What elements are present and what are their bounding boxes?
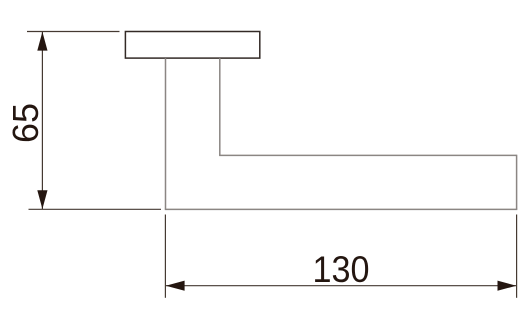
handle lever bottom edge (wire) bbox=[165, 208, 518, 210]
arrowhead up (65 dimension) bbox=[37, 32, 47, 51]
extension line left (130 dimension) bbox=[164, 215, 166, 298]
extension line top (65 dimension) bbox=[27, 31, 120, 33]
dimension line 130 (horizontal) bbox=[166, 285, 517, 287]
handle left outer edge (wire) bbox=[165, 58, 167, 209]
extension line bottom (65 dimension) bbox=[29, 208, 162, 210]
dimension line 65 (vertical) bbox=[41, 32, 43, 210]
handle lever top edge (wire) bbox=[219, 154, 516, 156]
handle mounting plate (rose) side-view rectangle bbox=[125, 32, 259, 59]
arrowhead down (65 dimension) bbox=[37, 190, 47, 209]
svg-text:130: 130 bbox=[313, 249, 370, 290]
svg-text:65: 65 bbox=[5, 103, 46, 143]
arrowhead left (130 dimension) bbox=[166, 281, 185, 291]
handle neck right edge (wire) bbox=[219, 58, 221, 155]
arrowhead right (130 dimension) bbox=[498, 281, 517, 291]
extension line right (130 dimension) bbox=[516, 215, 518, 298]
handle lever right end edge (wire) bbox=[516, 155, 518, 210]
